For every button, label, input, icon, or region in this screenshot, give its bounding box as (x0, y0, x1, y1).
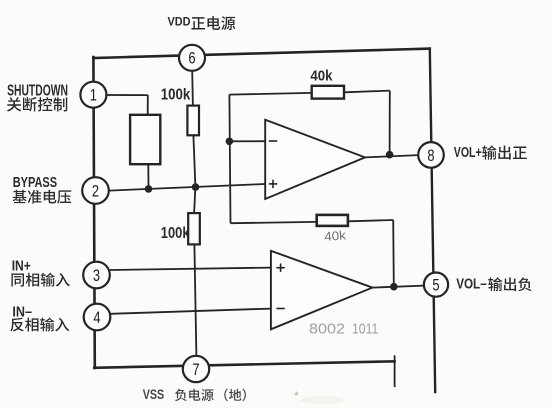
wire: corner down to A1 output node (389, 91, 391, 155)
wire: pin2 to A1 non-inverting input (109, 184, 265, 191)
wire: node to R2 top (194, 187, 195, 213)
wire: left frame (pins 1-4 rail) (93, 57, 94, 368)
resistor R4 40k (upper feedback) (312, 86, 344, 99)
svg-text:4: 4 (93, 308, 100, 327)
label: VOL+输出正 (pin 8) (454, 145, 527, 161)
label: 40k (R5) (324, 228, 347, 244)
pin 8 (VOL+) (418, 142, 444, 168)
wire: 40k R5 right to corner (348, 220, 393, 221)
wire: A1 output to pin 8 (365, 155, 418, 157)
label: 基准电压 (13, 190, 72, 204)
wire: top frame (pin1/pin6 rail VDD) (94, 49, 430, 58)
svg-text:1: 1 (90, 86, 97, 105)
label: VSS 负电源（地） (143, 387, 246, 402)
svg-text:8: 8 (427, 146, 434, 165)
wire: bottom-right end tick (394, 355, 396, 387)
label: VDD 正电源 (168, 15, 236, 31)
wire: corner down to A2 output node (392, 220, 395, 287)
wire: Rsd bottom to junction on pin2 wire (147, 164, 149, 189)
wire: A1 inverting input from node (229, 140, 265, 142)
pin 2 (BYPASS) (82, 177, 109, 204)
wire: corner down into Rsd (147, 95, 149, 115)
svg-text:7: 7 (192, 360, 199, 379)
svg-text:*: * (294, 389, 299, 403)
pin 5 (VOL-) (424, 273, 448, 297)
pin 7 (VSS) (183, 356, 209, 382)
junction: Rsd / pin2 wire (145, 185, 153, 193)
wire: inverting node vertical (229, 94, 230, 223)
resistor R5 40k (lower feedback) (317, 215, 348, 226)
pin 3 (IN+) (83, 262, 110, 289)
resistor R1 100k (upper) (187, 106, 199, 136)
svg-text:IN–: IN– (12, 304, 32, 320)
scan artifact: green mark (294, 389, 299, 403)
wire: pin3 to A2 non-inverting input (110, 268, 271, 270)
label: 反相输入 (10, 317, 69, 331)
label: 100k (R1) (161, 86, 191, 103)
wire: 40k R4 right to corner (344, 91, 390, 93)
svg-text:BYPASS: BYPASS (13, 175, 58, 191)
svg-text:1011: 1011 (352, 322, 378, 338)
label: SHUTDOWN (7, 82, 68, 99)
svg-text:6: 6 (188, 49, 195, 68)
label: IN+ (12, 258, 31, 274)
wire: pin4 to A2 inverting input (111, 309, 271, 314)
label: 100k (R2) (161, 225, 190, 242)
label: 8002 1011 (die marking) (309, 322, 378, 338)
label: IN- (12, 304, 32, 320)
label: VOL-输出负 (pin 5) (456, 277, 531, 293)
svg-text:IN+: IN+ (12, 258, 31, 274)
svg-text:8002: 8002 (309, 322, 345, 338)
label: 40k (R4) (310, 67, 333, 84)
label: BYPASS (13, 175, 58, 191)
label: 关断控制 (7, 97, 67, 112)
svg-text:40k: 40k (324, 228, 347, 244)
wire: node to 40k R5 left (231, 222, 317, 223)
svg-text:VSS: VSS (143, 387, 165, 402)
svg-text:VOL+: VOL+ (454, 145, 482, 161)
svg-text:VOL–: VOL– (456, 277, 487, 293)
pin 4 (IN-) (84, 304, 111, 331)
scan artifact: faint smudge bottom (300, 396, 344, 404)
junction: R-column / pin2 wire (192, 183, 200, 191)
svg-text:VDD: VDD (168, 15, 191, 29)
svg-text:3: 3 (93, 266, 100, 285)
wire: right frame (pins 8-5 rail) (430, 49, 435, 392)
svg-text:5: 5 (432, 276, 439, 295)
svg-text:100k: 100k (161, 86, 191, 103)
op-amp A2 (lower) (271, 251, 373, 329)
resistor R2 100k (lower) (188, 213, 200, 244)
wire: pin6 stem down to R1 (191, 71, 194, 106)
pin 1 (SHUTDOWN) (80, 82, 106, 108)
label: 同相输入 (11, 273, 69, 287)
wire: pin1 to corner (106, 94, 148, 96)
resistor R3 (shutdown pull, unlabeled) (130, 115, 160, 164)
svg-text:40k: 40k (310, 67, 333, 84)
svg-text:100k: 100k (161, 225, 190, 242)
op-amp A1 (upper) (265, 120, 365, 199)
junction: A2 output node (390, 283, 398, 291)
wire: 40k R4 left from node (229, 93, 311, 95)
junction: A1 inverting node (226, 138, 234, 146)
svg-text:SHUTDOWN: SHUTDOWN (7, 82, 68, 99)
wire: R2 bottom to pin7 (194, 244, 196, 356)
wire: bottom frame (VSS rail via pin 7) (94, 361, 394, 368)
pin 6 (VDD) (179, 45, 205, 71)
wire: A2 output to pin 5 (372, 286, 424, 288)
junction: A1 output node (386, 151, 394, 159)
wire: R1 bottom to node on pin2 wire (193, 135, 195, 187)
svg-text:2: 2 (92, 181, 99, 200)
